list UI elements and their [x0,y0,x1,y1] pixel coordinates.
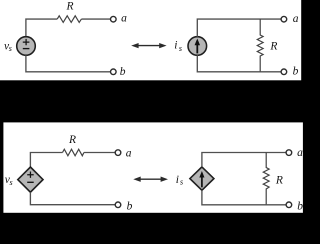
svg-text:s: s [10,178,13,187]
node b terminal [115,202,121,208]
label vs (dependent source name) [5,174,13,187]
wire from source top to resistor [30,153,62,167]
wire source top to node a [197,19,281,37]
svg-text:R: R [269,41,277,53]
node a terminal [286,150,292,156]
node b terminal [281,69,287,75]
equivalence arrow bottom [133,177,168,182]
resistor R1 [57,16,81,23]
svg-text:b: b [293,66,299,78]
dependent voltage source vs (diamond) [18,167,43,192]
dependent current source is (diamond) [190,167,214,190]
wire source bottom to node b [202,190,286,205]
equivalence arrow top [131,43,166,48]
svg-text:s: s [9,44,12,53]
svg-text:s: s [180,177,183,186]
svg-text:i: i [174,40,177,52]
node b terminal [111,69,117,75]
svg-text:b: b [297,200,303,212]
svg-text:R: R [275,175,283,187]
label is (current source name) [174,40,182,53]
voltage source vs (independent, circle) [17,37,36,56]
wire source bottom to node b [30,192,115,205]
wire resistor to node a [84,152,115,154]
svg-text:i: i [176,174,179,186]
svg-text:a: a [126,148,132,160]
wire source top to node a [202,153,286,167]
bottom panel background [3,122,303,212]
resistor R3 [63,149,84,156]
resistor R2 [257,19,263,72]
svg-text:a: a [121,13,127,25]
svg-text:b: b [120,66,126,78]
svg-text:s: s [179,44,182,53]
node a terminal [111,16,117,22]
resistor R4 [263,153,269,205]
svg-text:a: a [293,13,299,25]
svg-text:R: R [66,1,74,13]
svg-text:b: b [127,200,133,212]
top panel background [0,0,301,80]
node b terminal [286,202,292,208]
wire source bottom to node b [26,55,111,72]
svg-text:R: R [68,134,76,146]
current source is (independent, circle) [188,37,207,56]
wire from source top to resistor [26,19,57,37]
node a terminal [281,16,287,22]
svg-text:a: a [297,147,303,159]
node a terminal [115,150,121,156]
wire source bottom to node b [197,55,281,72]
wire resistor to node a [81,18,110,20]
label is (dependent source name) [176,174,183,186]
label vs (voltage source name) [4,40,12,53]
